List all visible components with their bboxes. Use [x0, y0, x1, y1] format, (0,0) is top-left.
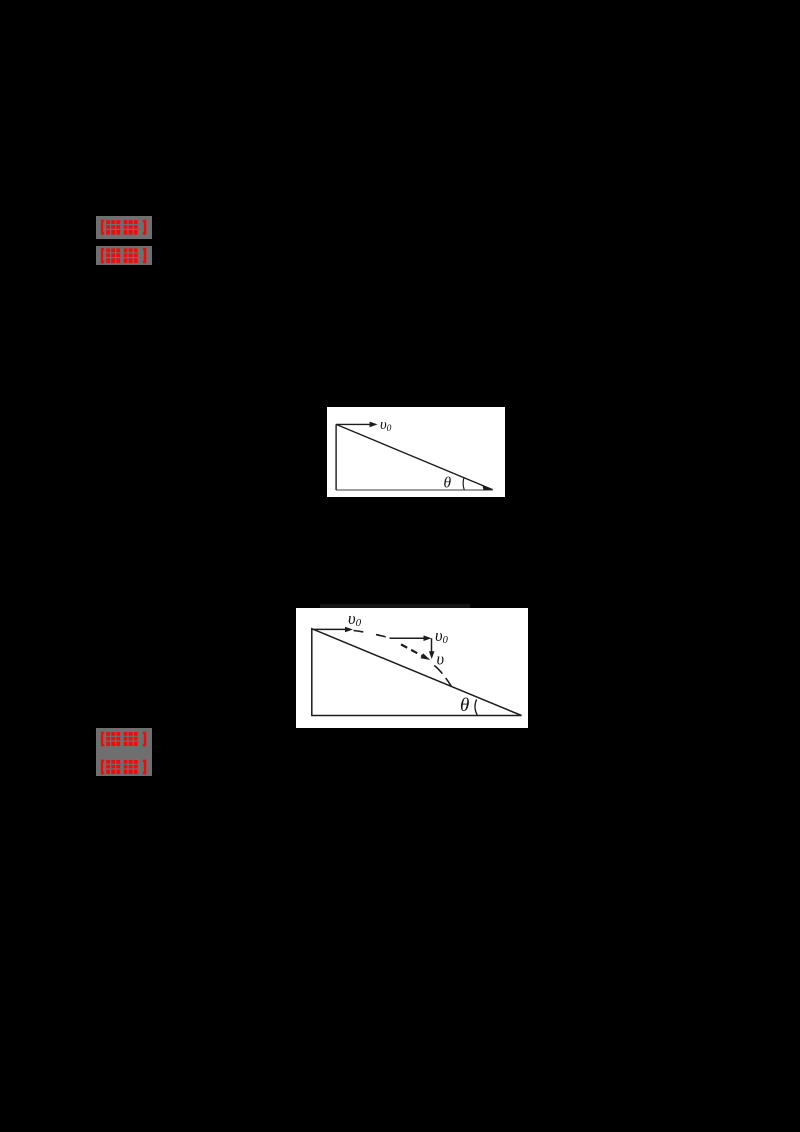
svg-text:θ: θ — [460, 695, 469, 716]
mid horizontal v0 arrow — [390, 637, 426, 639]
svg-text:υ: υ — [437, 650, 445, 669]
trajectory dashes (upper) — [354, 631, 391, 639]
trajectory dashes (lower) — [434, 666, 451, 687]
resultant v dashed arrow — [401, 644, 424, 656]
v0 arrow — [336, 423, 371, 425]
vertical component arrow — [431, 638, 433, 652]
faint shading above figure 2 — [320, 604, 470, 608]
figure 1: incline with initial velocity v0 — [327, 407, 505, 497]
figure 2: trajectory on incline with velocity components — [296, 608, 528, 728]
answer label 1 highlight — [96, 216, 154, 240]
incline triangle sides — [336, 424, 492, 490]
tip darkening — [483, 486, 493, 491]
answer label 3 highlight (continuous box) — [96, 728, 156, 776]
answer label 2 highlight — [96, 246, 154, 270]
incline base (light) — [336, 489, 493, 491]
svg-text:θ: θ — [444, 474, 452, 491]
angle arc — [475, 699, 477, 715]
angle arc — [463, 478, 464, 490]
incline triangle — [312, 629, 522, 716]
initial v0 arrow — [312, 628, 346, 630]
